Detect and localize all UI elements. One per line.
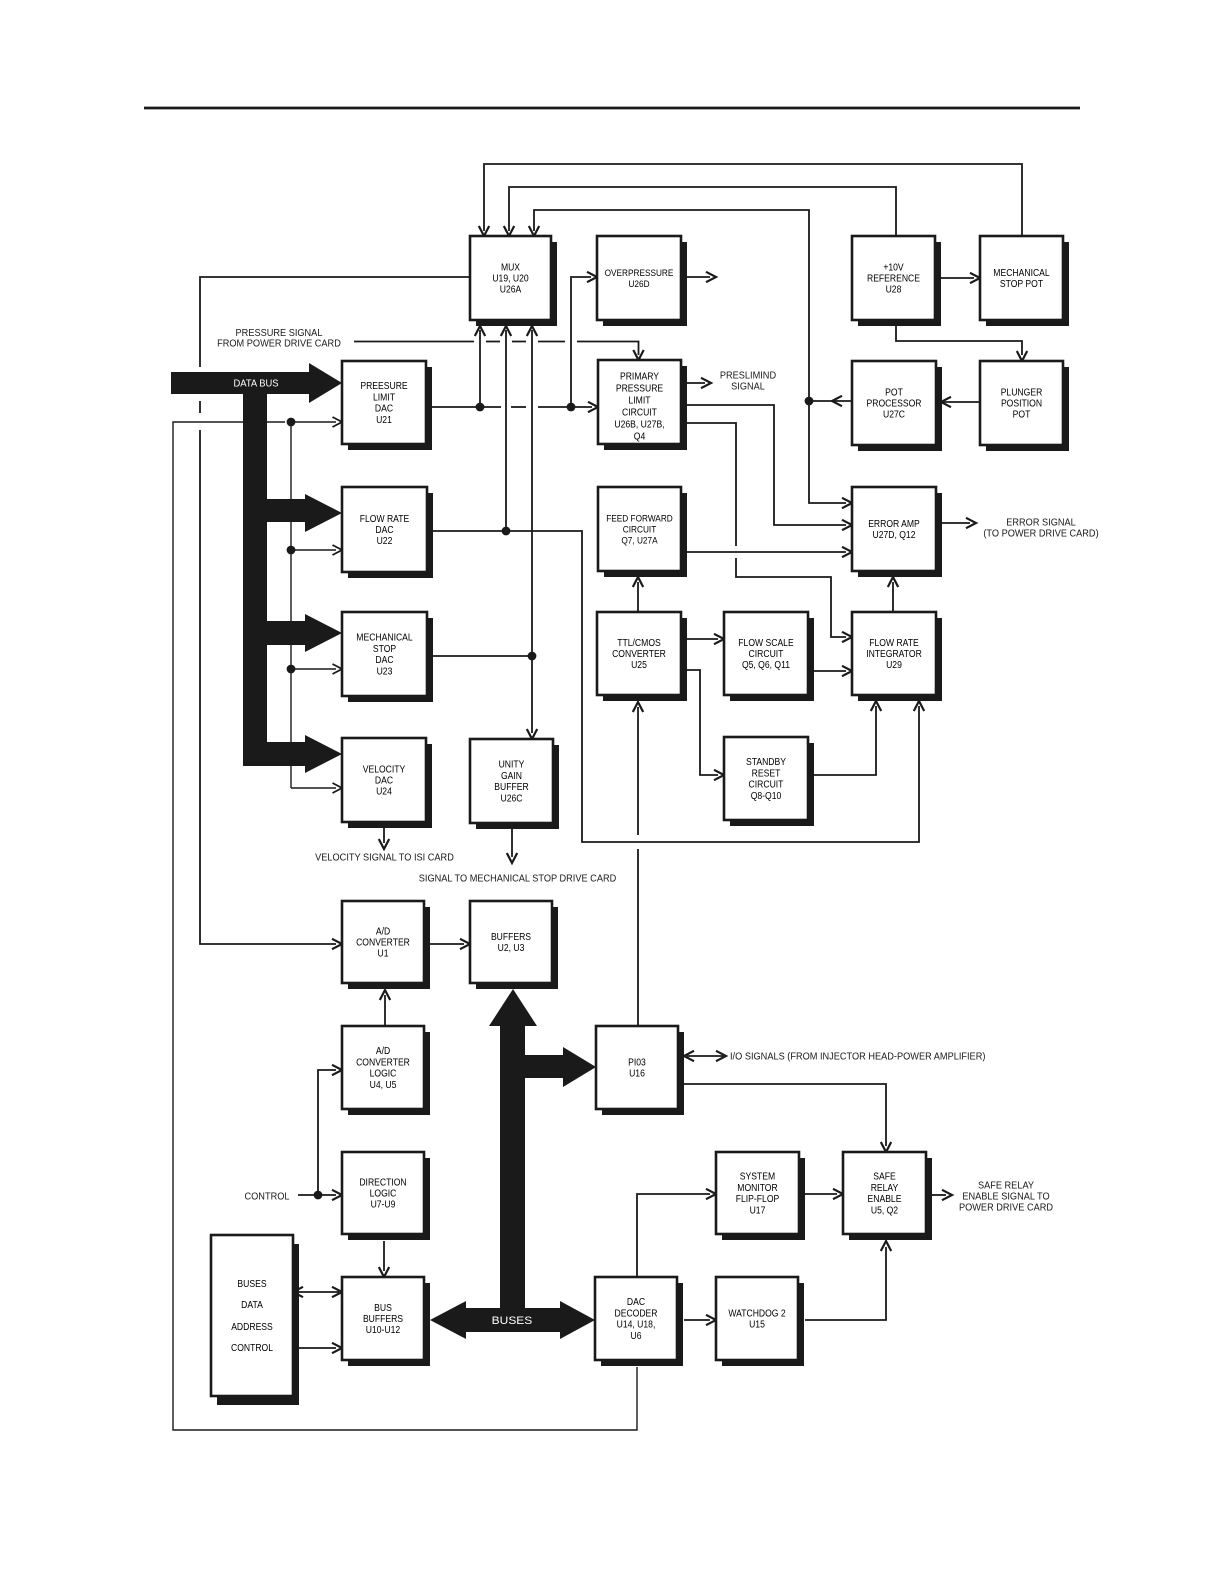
wire primary-PL output3 to flow rate integrator xyxy=(684,423,852,642)
svg-text:DATA: DATA xyxy=(241,1300,263,1311)
svg-text:PLUNGER: PLUNGER xyxy=(1001,387,1043,398)
svg-text:(TO POWER DRIVE CARD): (TO POWER DRIVE CARD) xyxy=(983,529,1098,540)
wire U23 output xyxy=(426,652,536,661)
svg-text:U22: U22 xyxy=(377,536,393,547)
buses branch to PI03 xyxy=(524,1047,596,1087)
svg-text:CONVERTER: CONVERTER xyxy=(356,938,410,949)
svg-text:CIRCUIT: CIRCUIT xyxy=(749,649,784,660)
svg-text:DECODER: DECODER xyxy=(615,1308,658,1319)
wire pot-processor tap to MUX input3 xyxy=(529,210,809,401)
block flow scale circuit Q5 Q6 Q11 xyxy=(724,612,814,701)
svg-text:U27D, Q12: U27D, Q12 xyxy=(873,530,916,541)
svg-text:DATA BUS: DATA BUS xyxy=(234,379,279,390)
svg-text:ENABLE SIGNAL TO: ENABLE SIGNAL TO xyxy=(962,1192,1049,1203)
svg-text:BUSES: BUSES xyxy=(237,1279,266,1290)
block mechanical stop DAC U23 xyxy=(342,612,433,702)
svg-text:FLOW RATE: FLOW RATE xyxy=(869,638,919,649)
svg-text:U26C: U26C xyxy=(501,793,523,804)
block pressure limit DAC U21 xyxy=(342,361,432,450)
svg-text:+10V: +10V xyxy=(883,262,904,273)
svg-text:FLOW RATE: FLOW RATE xyxy=(360,514,410,525)
wire U23-tap up to MUX bottom3 xyxy=(527,326,537,656)
svg-text:LOGIC: LOGIC xyxy=(370,1069,397,1080)
wire plunger pot to pot processor xyxy=(941,397,980,407)
svg-text:U6: U6 xyxy=(631,1331,642,1342)
wire U21 output xyxy=(426,402,598,412)
svg-text:ENABLE: ENABLE xyxy=(868,1194,902,1205)
wire safe relay output xyxy=(932,1190,952,1200)
svg-text:U27C: U27C xyxy=(883,410,905,421)
wire MUX output to A/D converter xyxy=(200,277,470,949)
svg-text:MECHANICAL: MECHANICAL xyxy=(356,633,413,644)
svg-text:UNITY: UNITY xyxy=(499,760,525,771)
svg-text:LIMIT: LIMIT xyxy=(373,392,395,403)
label safe relay enable signal xyxy=(959,1181,1053,1214)
data bus branch to U22 xyxy=(267,494,342,532)
wire U22-tap up to MUX bottom2 xyxy=(501,326,511,531)
block bus buffers U10-U12 xyxy=(342,1277,430,1366)
block buses data address control xyxy=(211,1235,299,1405)
svg-text:PROCESSOR: PROCESSOR xyxy=(867,399,922,410)
block pot processor U27C xyxy=(852,361,942,451)
block TTL/CMOS converter U25 xyxy=(597,612,687,701)
wire PI03 to TTL/CMOS xyxy=(633,702,643,1026)
svg-text:LIMIT: LIMIT xyxy=(629,396,651,407)
svg-text:Q4: Q4 xyxy=(634,432,646,443)
block PI03 U16 xyxy=(596,1026,684,1115)
svg-text:SYSTEM: SYSTEM xyxy=(740,1172,775,1183)
wire U24 output down xyxy=(379,828,389,849)
svg-text:U15: U15 xyxy=(749,1320,765,1331)
wire unity gain output down xyxy=(507,829,517,863)
svg-text:U1: U1 xyxy=(378,949,389,960)
svg-text:CONTROL: CONTROL xyxy=(245,1192,290,1203)
wire error amp output xyxy=(942,518,976,528)
block direction logic U7-U9 xyxy=(342,1152,430,1240)
svg-text:RESET: RESET xyxy=(752,768,781,779)
svg-text:A/D: A/D xyxy=(376,926,390,937)
block DAC decoder U14 U18 U6 xyxy=(595,1277,683,1366)
svg-text:VELOCITY SIGNAL TO ISI CARD: VELOCITY SIGNAL TO ISI CARD xyxy=(315,853,454,864)
svg-text:U23: U23 xyxy=(377,666,393,677)
label control xyxy=(245,1192,290,1203)
svg-text:SIGNAL: SIGNAL xyxy=(731,382,765,393)
wire watchdog to safe relay xyxy=(805,1241,891,1320)
svg-text:U28: U28 xyxy=(886,285,902,296)
block flow rate integrator U29 xyxy=(852,612,942,701)
svg-text:DAC: DAC xyxy=(375,776,393,787)
wire select U21 xyxy=(291,417,342,427)
svg-text:U26B, U27B,: U26B, U27B, xyxy=(614,420,664,431)
wire DAC decoder to system monitor xyxy=(637,1189,716,1277)
svg-text:SIGNAL TO MECHANICAL STOP DRIV: SIGNAL TO MECHANICAL STOP DRIVE CARD xyxy=(419,874,617,885)
svg-text:POSITION: POSITION xyxy=(1001,399,1042,410)
wire feed forward output to error amp xyxy=(684,547,852,557)
wire pressure signal to primary-pressure-limit top xyxy=(354,342,644,361)
wire pot processor output xyxy=(805,396,852,406)
block safe relay enable U5 Q2 xyxy=(843,1152,932,1240)
svg-text:U26D: U26D xyxy=(628,279,649,290)
block A/D converter logic U4 U5 xyxy=(342,1026,430,1115)
svg-text:POT: POT xyxy=(885,387,903,398)
wire DAC decoder feedback loop xyxy=(173,422,637,1430)
svg-text:CIRCUIT: CIRCUIT xyxy=(749,780,784,791)
svg-text:DAC: DAC xyxy=(375,655,393,666)
svg-text:U25: U25 xyxy=(631,660,647,671)
svg-text:POT: POT xyxy=(1013,410,1031,421)
svg-text:CONVERTER: CONVERTER xyxy=(612,649,666,660)
block flow rate DAC U22 xyxy=(342,487,433,578)
wire U22 output to feedback column xyxy=(427,527,924,842)
svg-text:U21: U21 xyxy=(376,415,392,426)
wire +10V to mech stop pot xyxy=(938,273,980,283)
svg-text:VELOCITY: VELOCITY xyxy=(363,764,406,775)
wire flow-rate-integrator to error amp xyxy=(888,577,898,612)
wire TTL/CMOS to feed forward xyxy=(633,577,643,612)
wire pot-processor tap down to error amp xyxy=(809,401,852,508)
label velocity signal xyxy=(315,853,454,864)
label pressure signal xyxy=(217,328,341,350)
svg-text:U17: U17 xyxy=(750,1205,766,1216)
svg-text:U26A: U26A xyxy=(500,285,522,296)
svg-text:GAIN: GAIN xyxy=(501,771,522,782)
wire direction logic to bus buffers xyxy=(379,1241,389,1277)
svg-text:PI03: PI03 xyxy=(628,1057,646,1068)
buses label xyxy=(492,1315,533,1327)
wire U23-tap down to unity gain buffer xyxy=(527,656,537,739)
wire TTL/CMOS to standby reset xyxy=(684,670,724,780)
svg-text:PRIMARY: PRIMARY xyxy=(620,372,659,383)
wire standby reset to flow rate integrator xyxy=(814,701,881,775)
svg-text:PREESURE: PREESURE xyxy=(360,381,408,392)
label error signal xyxy=(983,518,1098,540)
svg-text:DAC: DAC xyxy=(627,1297,645,1308)
svg-text:BUSES: BUSES xyxy=(492,1315,533,1327)
svg-text:BUFFER: BUFFER xyxy=(494,782,528,793)
svg-text:I/O SIGNALS (FROM INJECTOR HEA: I/O SIGNALS (FROM INJECTOR HEAD-POWER AM… xyxy=(730,1052,985,1063)
svg-text:SAFE: SAFE xyxy=(873,1172,896,1183)
wire DAC decoder to watchdog xyxy=(684,1315,716,1325)
block watchdog 2 U15 xyxy=(716,1277,804,1366)
wire select U23 xyxy=(291,664,342,674)
wire system monitor to safe relay xyxy=(805,1189,843,1199)
svg-text:MUX: MUX xyxy=(501,262,520,273)
wire primary-PL output2 to error amp xyxy=(684,405,852,530)
label I/O signals xyxy=(730,1052,985,1063)
svg-text:MECHANICAL: MECHANICAL xyxy=(993,268,1050,279)
svg-text:Q7, U27A: Q7, U27A xyxy=(621,536,658,547)
svg-text:BUFFERS: BUFFERS xyxy=(363,1314,403,1325)
data bus vertical xyxy=(243,390,267,766)
wire A/D logic to A/D converter xyxy=(380,990,390,1026)
block system monitor flip-flop U17 xyxy=(716,1152,805,1240)
svg-text:U10-U12: U10-U12 xyxy=(366,1325,401,1336)
block A/D converter U1 xyxy=(342,901,430,989)
svg-text:STANDBY: STANDBY xyxy=(746,757,786,768)
svg-text:SAFE RELAY: SAFE RELAY xyxy=(978,1181,1034,1192)
svg-text:ADDRESS: ADDRESS xyxy=(231,1322,273,1333)
svg-text:U2, U3: U2, U3 xyxy=(498,943,525,954)
block buffers U2 U3 xyxy=(470,901,558,989)
wire TTL/CMOS to flow scale xyxy=(684,634,724,644)
block primary pressure limit circuit U26B U27B Q4 xyxy=(598,360,687,450)
wire flow scale to flow rate integrator xyxy=(814,666,852,676)
svg-text:CIRCUIT: CIRCUIT xyxy=(622,408,657,419)
svg-text:LOGIC: LOGIC xyxy=(370,1189,397,1200)
data bus label xyxy=(234,379,279,390)
data bus branch to U23 xyxy=(267,614,342,652)
wire buses control to bus buffers xyxy=(299,1343,342,1353)
buses horizontal xyxy=(430,1301,595,1339)
svg-text:Q5, Q6, Q11: Q5, Q6, Q11 xyxy=(742,660,790,671)
label signal to mechanical stop drive card xyxy=(419,874,617,885)
svg-text:A/D: A/D xyxy=(376,1046,390,1057)
wire control to A/D logic xyxy=(318,1065,342,1195)
svg-text:STOP: STOP xyxy=(373,644,397,655)
label preslimind signal xyxy=(720,371,776,393)
svg-text:U14, U18,: U14, U18, xyxy=(617,1320,656,1331)
svg-text:STOP POT: STOP POT xyxy=(1000,279,1043,290)
svg-text:CONTROL: CONTROL xyxy=(231,1343,273,1354)
wire A/D converter to buffers xyxy=(430,939,470,949)
block mechanical stop pot xyxy=(980,236,1069,326)
node junction chain on feedback column xyxy=(287,418,296,788)
svg-text:CONVERTER: CONVERTER xyxy=(356,1057,410,1068)
svg-text:RELAY: RELAY xyxy=(871,1183,899,1194)
svg-text:U7-U9: U7-U9 xyxy=(371,1200,396,1211)
wire +10V to plunger position pot xyxy=(896,325,1027,361)
svg-text:PRESSURE SIGNAL: PRESSURE SIGNAL xyxy=(236,328,323,339)
svg-text:DAC: DAC xyxy=(375,525,393,536)
top rule xyxy=(144,107,1080,110)
block feed forward circuit Q7 U27A xyxy=(598,487,687,577)
svg-text:WATCHDOG 2: WATCHDOG 2 xyxy=(728,1308,786,1319)
svg-text:BUS: BUS xyxy=(374,1303,392,1314)
svg-text:U4, U5: U4, U5 xyxy=(370,1080,397,1091)
data bus branch to U24 xyxy=(267,735,342,773)
svg-text:Q8-Q10: Q8-Q10 xyxy=(751,791,782,802)
svg-text:U29: U29 xyxy=(886,660,902,671)
svg-text:REFERENCE: REFERENCE xyxy=(867,274,920,285)
svg-text:U16: U16 xyxy=(629,1069,645,1080)
svg-text:FLIP-FLOP: FLIP-FLOP xyxy=(736,1194,780,1205)
svg-text:TTL/CMOS: TTL/CMOS xyxy=(617,638,661,649)
block plunger position pot xyxy=(980,361,1069,451)
svg-text:BUFFERS: BUFFERS xyxy=(491,932,531,943)
svg-text:INTEGRATOR: INTEGRATOR xyxy=(866,649,922,660)
block +10V reference U28 xyxy=(852,236,941,326)
block overpressure U26D xyxy=(597,236,687,326)
wire mech-stop-pot to MUX input1 xyxy=(479,164,1022,236)
svg-text:FLOW SCALE: FLOW SCALE xyxy=(738,638,794,649)
wire control into direction logic xyxy=(298,1190,342,1200)
wire overpressure output xyxy=(684,272,716,282)
wire I/O signals double arrow xyxy=(684,1051,726,1061)
block error amp U27D Q12 xyxy=(852,487,942,577)
wire preslimind arrow xyxy=(684,378,711,388)
block MUX U19, U20, U26A xyxy=(470,236,557,326)
svg-text:ERROR AMP: ERROR AMP xyxy=(868,519,920,530)
wire PI03 to safe relay enable xyxy=(678,1084,891,1152)
svg-text:DIRECTION: DIRECTION xyxy=(359,1177,406,1188)
wire select U22 xyxy=(291,545,342,555)
wire +10V-ref to MUX input2 xyxy=(504,187,896,236)
wire buses-bus buffers bidirectional xyxy=(293,1287,342,1297)
wire U21-tap to overpressure xyxy=(571,272,597,407)
svg-text:FROM POWER DRIVE CARD: FROM POWER DRIVE CARD xyxy=(217,339,341,350)
svg-text:U5, Q2: U5, Q2 xyxy=(871,1205,899,1216)
svg-text:PRESLIMIND: PRESLIMIND xyxy=(720,371,776,382)
svg-text:FEED FORWARD: FEED FORWARD xyxy=(606,513,673,524)
buses vertical to buffers xyxy=(489,989,537,1312)
svg-text:OVERPRESSURE: OVERPRESSURE xyxy=(605,268,674,279)
data bus horizontal xyxy=(171,363,342,403)
block unity gain buffer U26C xyxy=(470,739,559,829)
wire U21-tap up to MUX bottom1 xyxy=(475,326,485,407)
svg-text:U19, U20: U19, U20 xyxy=(492,274,529,285)
svg-text:U24: U24 xyxy=(376,787,392,798)
svg-text:CIRCUIT: CIRCUIT xyxy=(623,525,657,536)
svg-text:POWER DRIVE CARD: POWER DRIVE CARD xyxy=(959,1203,1053,1214)
svg-text:DAC: DAC xyxy=(375,404,393,415)
block velocity DAC U24 xyxy=(342,738,432,828)
svg-text:ERROR SIGNAL: ERROR SIGNAL xyxy=(1006,518,1076,529)
block standby reset circuit Q8-Q10 xyxy=(724,737,814,826)
svg-text:PRESSURE: PRESSURE xyxy=(616,384,664,395)
wire select U24 xyxy=(291,783,342,793)
svg-text:MONITOR: MONITOR xyxy=(737,1183,777,1194)
